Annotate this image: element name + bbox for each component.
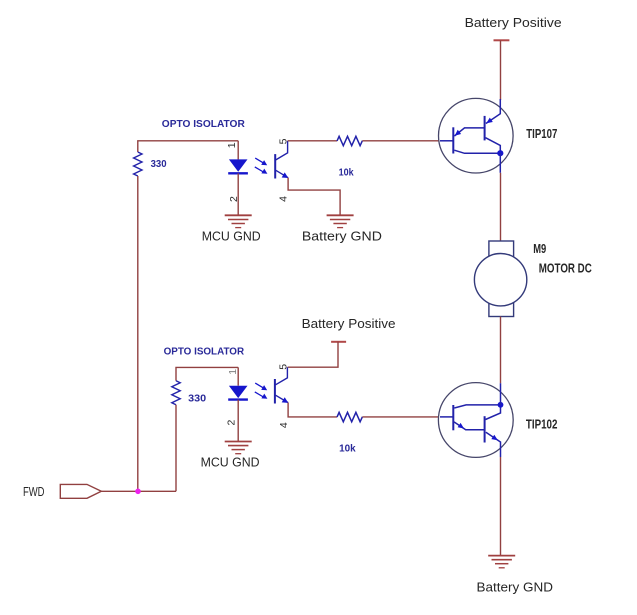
light arrow 1 (top opto) [255, 158, 268, 174]
ground Battery GND (bottom) [488, 556, 515, 568]
transistor Q? TIP107 [439, 98, 514, 173]
svg-text:330: 330 [188, 393, 206, 405]
wire 10k to TIP107 base [362, 140, 441, 142]
wire LED pin2 (bottom opto) [237, 400, 239, 442]
TIP102 Q1 emitter arrow [458, 423, 464, 429]
TIP107 Q1 emitter [454, 128, 484, 136]
resistor 10k (bottom) [337, 412, 362, 421]
svg-text:Battery Positive: Battery Positive [465, 15, 562, 30]
TIP102 Q1 collector [454, 405, 500, 408]
power bar Battery Positive (top) [494, 39, 510, 41]
svg-text:OPTO ISOLATOR: OPTO ISOLATOR [162, 118, 245, 130]
power bar Battery Positive (bottom) [331, 341, 346, 343]
phototransistor emitter (top opto) [276, 170, 288, 177]
svg-text:MOTOR DC: MOTOR DC [539, 261, 592, 276]
wire LED pin2 (top opto) [237, 173, 239, 215]
svg-text:FWD: FWD [23, 484, 45, 499]
svg-text:Battery Positive: Battery Positive [302, 316, 396, 331]
wire TIP107 collector to motor [500, 173, 502, 241]
wire left rail bottom (330 top to LED pin1, bottom opto) [176, 367, 238, 380]
motor M9 body circle [474, 254, 526, 306]
wire pin4 to 10k (bottom) [288, 403, 337, 417]
svg-text:TIP107: TIP107 [526, 126, 557, 141]
svg-text:Battery GND: Battery GND [477, 580, 554, 595]
TIP102 collector junction dot [498, 402, 504, 408]
TIP107 collector tail [499, 153, 501, 173]
opto U? phototransistor base bar (top) [274, 154, 276, 178]
wire LED pin1 (top opto) [237, 141, 239, 160]
TIP107 Q2 collector [486, 138, 501, 154]
light arrow 2 (bottom opto) [255, 392, 264, 397]
svg-text:MCU GND: MCU GND [201, 454, 260, 469]
phototransistor collector (bottom opto) [276, 367, 288, 385]
svg-text:4: 4 [277, 196, 289, 202]
motor M9 terminal rect (top) [489, 241, 514, 257]
svg-text:1: 1 [226, 142, 238, 148]
TIP102 Q2 emitter arrow [491, 435, 498, 441]
phototransistor collector (top opto) [276, 141, 288, 160]
svg-text:MCU GND: MCU GND [202, 229, 261, 244]
svg-text:10k: 10k [339, 166, 354, 178]
svg-text:330: 330 [151, 158, 167, 170]
transistor Q? TIP102 [438, 383, 513, 458]
TIP107 Q2 emitter [486, 99, 500, 124]
ground Battery GND (top) [327, 215, 354, 227]
wire left rail top (330 top to LED pin1) [138, 141, 238, 152]
connector FWD [60, 484, 101, 498]
TIP107 Q1 base bar [452, 127, 454, 153]
svg-text:10k: 10k [339, 443, 356, 455]
wire TIP102 emitter to Battery GND [500, 457, 502, 555]
TIP107 Q1 emitter arrow [455, 130, 461, 136]
LED anode triangle (bottom opto) [229, 386, 248, 398]
LED anode triangle (top opto) [229, 159, 248, 171]
TIP102 Q1 base bar [452, 405, 454, 430]
svg-text:OPTO ISOLATOR: OPTO ISOLATOR [164, 346, 245, 358]
TIP102 collector tail above dot [500, 383, 502, 405]
motor M9 terminal rect (bottom) [489, 300, 514, 317]
LED cathode bar (top opto) [228, 172, 248, 174]
TIP107 Q2 base bar [484, 116, 486, 140]
TIP102 Q2 base bar [484, 416, 486, 442]
wire battery positive to pin5 (bottom) [288, 342, 338, 367]
svg-text:TIP102: TIP102 [526, 417, 558, 432]
wire battery positive to TIP107 emitter [500, 40, 502, 100]
light arrow 1 (bottom opto) [255, 383, 268, 399]
TIP102 Q2 emitter [486, 432, 501, 457]
wire LED pin1 (bottom opto) [237, 367, 239, 385]
phototransistor base bar (bottom opto) [274, 379, 276, 404]
ground MCU GND (top) [225, 215, 252, 227]
wire 330 bottom to FWD wire [175, 405, 177, 492]
svg-text:Battery GND: Battery GND [302, 229, 382, 244]
wire 10k to TIP102 base [362, 416, 441, 418]
wire motor to TIP102 collector [500, 317, 502, 384]
svg-text:4: 4 [278, 422, 290, 428]
wire pin4 to Battery GND (top) [288, 178, 340, 215]
svg-text:2: 2 [225, 420, 237, 426]
LED cathode bar (bottom opto) [228, 398, 248, 400]
wire pin5 to 10k (top) [288, 140, 337, 142]
svg-text:2: 2 [228, 196, 240, 202]
svg-text:1: 1 [227, 369, 239, 375]
TIP107 Q1 collector [454, 150, 500, 153]
TIP102 base lead [440, 416, 453, 418]
resistor 330 (bottom) [172, 381, 180, 405]
wire left rail (330 bottom to FWD junction) [137, 176, 139, 491]
svg-text:5: 5 [277, 364, 289, 370]
wire FWD to 330 rails [101, 490, 176, 492]
phototransistor emitter (bottom opto) [276, 395, 289, 402]
TIP102 Q2 collector [486, 405, 501, 420]
junction dot FWD node [135, 489, 141, 495]
TIP107 Q2 emitter arrow [486, 118, 493, 124]
ground MCU GND (bottom) [225, 442, 252, 454]
light arrow 2 (top opto) [255, 167, 264, 172]
resistor 10k (top) [337, 136, 362, 145]
TIP107 base lead [440, 140, 453, 142]
svg-text:M9: M9 [533, 241, 546, 256]
TIP102 Q1 emitter [454, 422, 485, 430]
TIP107 collector junction dot [497, 150, 503, 156]
resistor R? 330 (top) [134, 152, 142, 176]
